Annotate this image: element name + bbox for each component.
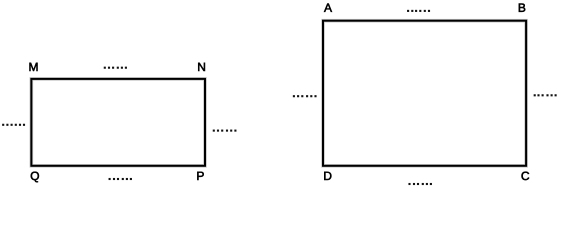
vertex label M xyxy=(29,63,37,71)
dotted label left side AD xyxy=(293,95,317,97)
vertex label P xyxy=(197,172,203,180)
dotted label bottom side QP xyxy=(109,178,132,180)
dotted label top side AB xyxy=(407,10,430,12)
rectangle MNPQ (left) xyxy=(31,79,205,166)
vertex label A xyxy=(324,4,332,12)
vertex label B xyxy=(519,4,525,12)
dotted label right side NP xyxy=(213,130,237,132)
vertex label Q xyxy=(31,172,39,183)
dotted label right side BC xyxy=(534,94,557,96)
vertex label C xyxy=(521,172,529,180)
rectangle ABCD (right) xyxy=(323,21,526,166)
dotted label bottom side DC xyxy=(408,183,432,185)
vertex label N xyxy=(198,63,205,71)
dotted label left side MQ xyxy=(2,124,25,126)
dotted label top side MN xyxy=(104,67,127,69)
vertex label D xyxy=(324,172,331,180)
